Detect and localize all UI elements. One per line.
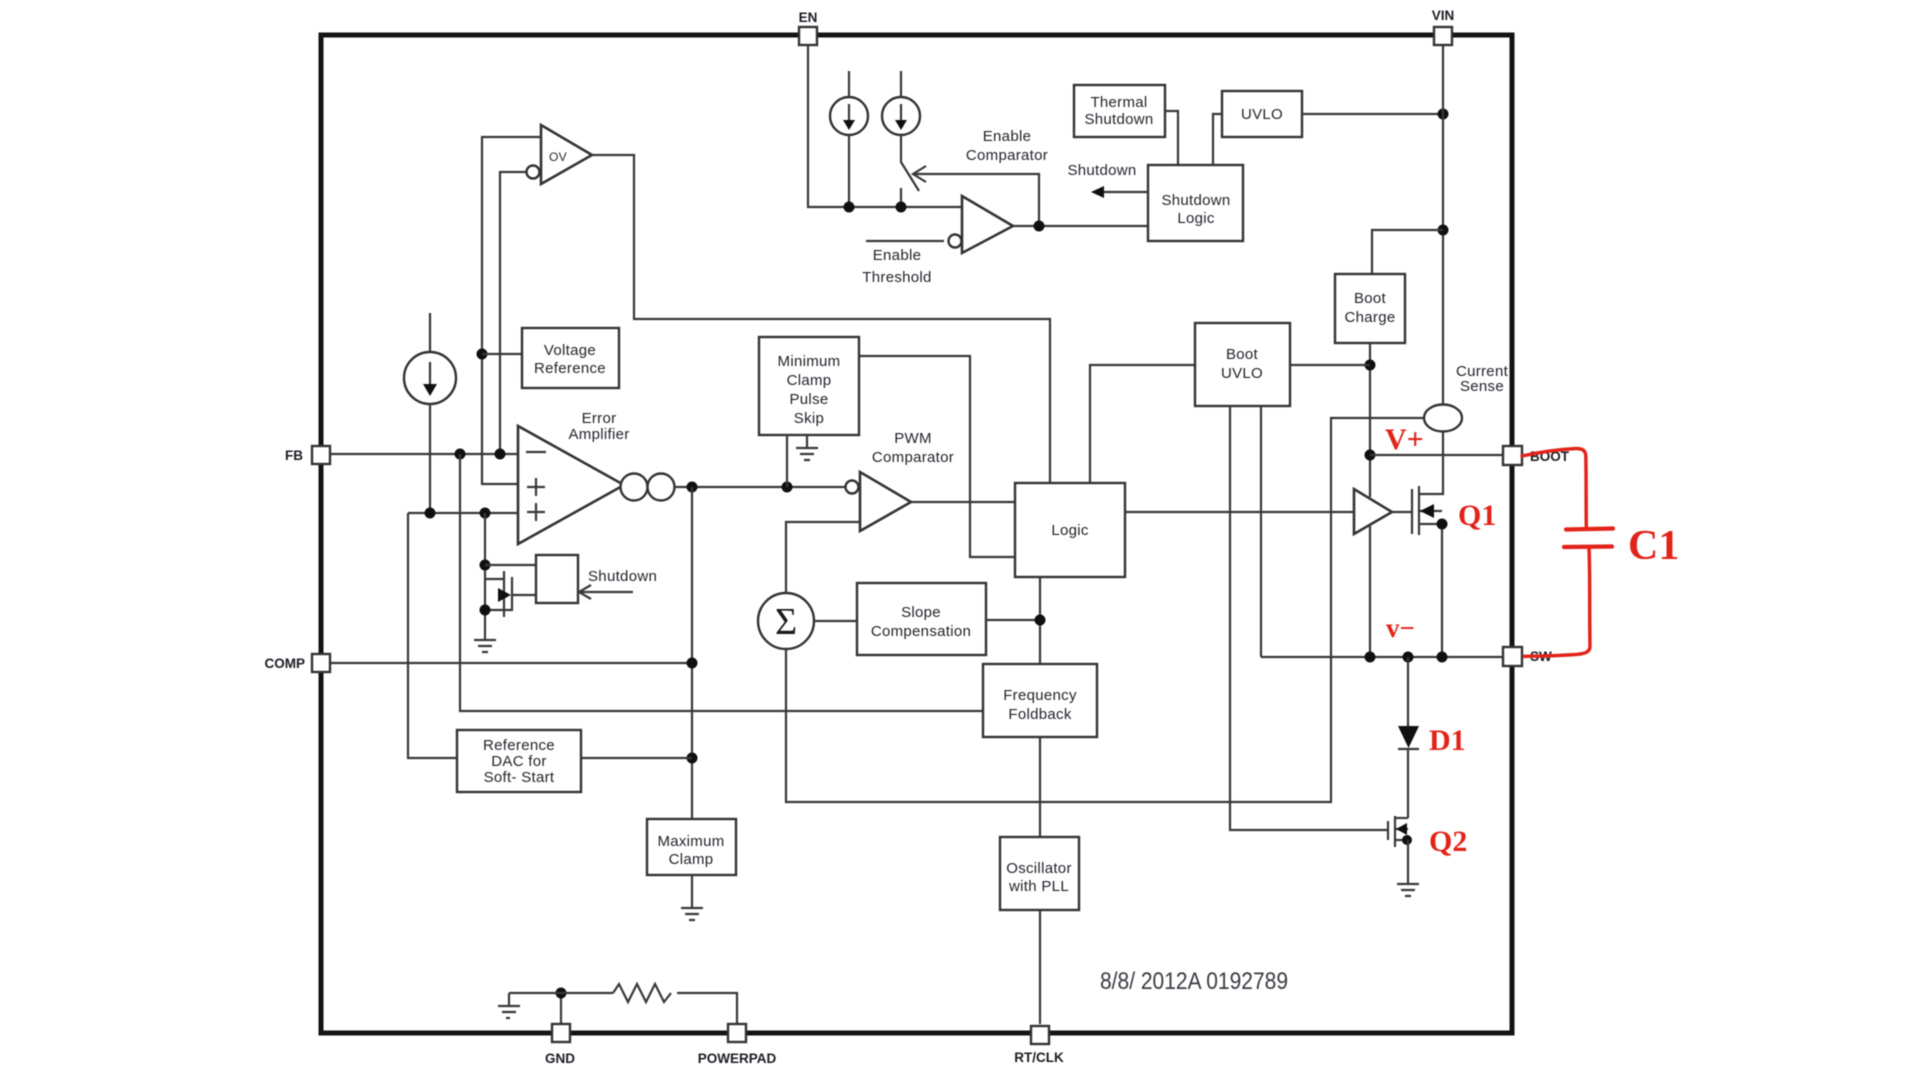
svg-text:v−: v−	[1386, 613, 1415, 643]
wire boot uvlo left pin to logic top	[1090, 365, 1195, 483]
op-amp U6 gate driver	[1354, 489, 1392, 534]
junction COMP	[687, 658, 698, 669]
current source I2 stub	[900, 71, 902, 97]
ground at GND net	[498, 993, 520, 1018]
transistor Q1 channel bar	[1418, 486, 1420, 535]
wire Q1 drain	[1419, 431, 1443, 494]
wire Q1 source	[1419, 524, 1442, 657]
ground at Q2	[1397, 884, 1419, 896]
svg-text:Shutdown: Shutdown	[588, 568, 657, 585]
transistor M1 channel bar	[511, 577, 513, 611]
wire D1 cathode to Q2 drain	[1407, 749, 1409, 818]
svg-text:Enable: Enable	[983, 128, 1032, 145]
wire fet drain to shutdown block	[485, 564, 536, 566]
junction SW driver rail	[1365, 652, 1376, 663]
wire thermal shutdown to logic	[1165, 111, 1178, 165]
svg-text:GND: GND	[545, 1051, 575, 1066]
wire BOOT rail	[1370, 454, 1503, 456]
svg-text:Skip: Skip	[794, 410, 824, 427]
wire red C1 to SW	[1524, 547, 1590, 656]
junction shutdown fet tap	[480, 508, 491, 519]
svg-text:Frequency: Frequency	[1003, 687, 1077, 704]
svg-text:D1: D1	[1429, 724, 1466, 757]
svg-text:Foldback: Foldback	[1008, 706, 1071, 723]
wire boot uvlo bottom pin to Q2 gate	[1230, 406, 1388, 830]
transistor Q1 gate bar	[1411, 489, 1413, 534]
wire logic bottom to frequency foldback	[1039, 577, 1041, 664]
ground at minimum clamp	[796, 448, 818, 460]
op-amp U2 enable comparator	[949, 235, 962, 248]
svg-text:Clamp: Clamp	[787, 372, 832, 389]
wire shutdown arrow	[1104, 191, 1148, 193]
wire min clamp right to logic	[859, 356, 1015, 557]
wire Q2 source to ground	[1407, 840, 1409, 884]
svg-text:Soft- Start: Soft- Start	[484, 769, 555, 786]
svg-text:Q2: Q2	[1429, 825, 1467, 858]
junction FB to OV	[495, 449, 506, 460]
svg-text:Shutdown: Shutdown	[1161, 192, 1230, 209]
wire GND pin up	[560, 993, 562, 1024]
terminal EN	[799, 27, 817, 45]
wire min clamp output down	[786, 435, 788, 487]
current source I1 stub	[848, 71, 850, 97]
wire Q2 source	[1395, 839, 1408, 841]
svg-text:FB: FB	[285, 448, 303, 463]
svg-text:Clamp: Clamp	[669, 851, 714, 868]
wire plus input to shutdown fet	[484, 513, 486, 639]
junction comparator output	[1034, 221, 1045, 232]
wire PWM output to logic	[911, 501, 1015, 503]
ground at shutdown fet	[474, 640, 496, 652]
wire sigma to slope compensation	[814, 620, 857, 622]
svg-text:Reference: Reference	[483, 737, 555, 754]
wire boot uvlo right pin	[1290, 364, 1370, 366]
wire boot charge bottom to BOOT node	[1369, 343, 1371, 497]
terminal BOOT	[1503, 446, 1522, 465]
svg-text:Pulse: Pulse	[789, 391, 828, 408]
wire FB line	[330, 453, 518, 455]
svg-text:Slope: Slope	[901, 604, 941, 621]
block Boot UVLO	[1195, 323, 1290, 406]
svg-text:Enable: Enable	[873, 247, 922, 264]
svg-text:Charge: Charge	[1345, 309, 1396, 326]
svg-text:Voltage: Voltage	[544, 342, 596, 359]
wire driver to Q1 gate	[1392, 511, 1411, 513]
op-amp U4 error amplifier	[518, 426, 624, 544]
wire fet gate L	[485, 578, 504, 580]
block Logic	[1015, 483, 1125, 577]
wire current sense below to Q1 drain already drawn	[1442, 44, 1444, 46]
junction minimum clamp tap	[782, 482, 793, 493]
wire logic output to driver	[1125, 511, 1354, 513]
svg-text:Amplifier: Amplifier	[568, 426, 629, 443]
wire DAC output	[581, 757, 692, 759]
transistor M1 body arrow	[498, 588, 511, 602]
svg-text:V+: V+	[1385, 423, 1424, 456]
wire gnd lateral	[509, 992, 613, 994]
wire EN drop and enable rail	[808, 45, 962, 207]
wire soft-start DAC feed	[408, 513, 457, 758]
wire shutdown control arrow	[580, 591, 633, 593]
block Boot Charge	[1335, 274, 1405, 343]
terminal VIN	[1434, 27, 1452, 45]
wire PWM lower input from sigma	[786, 522, 860, 593]
capacitor C1 bottom plate	[1564, 544, 1612, 549]
wire SW rail	[1261, 656, 1503, 658]
terminal COMP	[312, 654, 330, 672]
transistor Q2 gate bar	[1387, 821, 1389, 840]
transistor Q2 channel bar	[1394, 816, 1396, 847]
ground at maximum clamp	[681, 908, 703, 920]
terminal FB	[312, 446, 330, 464]
wire fet to shutdown block lower	[512, 594, 536, 596]
svg-text:Σ: Σ	[775, 601, 797, 643]
block Thermal Shutdown	[1074, 85, 1165, 137]
svg-text:Sense: Sense	[1460, 378, 1504, 395]
wire I3 to error amp plus input	[429, 404, 431, 513]
wire UVLO left to shutdown logic	[1213, 114, 1222, 165]
label error amp plus 1	[527, 478, 545, 496]
wire oscillator to RT/CLK	[1039, 910, 1041, 1024]
transistor M1 shutdown fet gate bar	[503, 571, 505, 617]
svg-text:Thermal: Thermal	[1090, 94, 1147, 111]
label error amp minus	[526, 451, 546, 453]
junction VIN boot charge	[1438, 225, 1449, 236]
transistor Q1 body arrow	[1419, 510, 1442, 512]
wire fet source stub	[485, 609, 512, 611]
block Maximum Clamp	[647, 819, 736, 875]
wire OV output to logic top	[592, 155, 1050, 483]
wire hysteresis feedback with arrow	[914, 174, 1039, 226]
svg-text:COMP: COMP	[265, 656, 306, 671]
svg-text:Logic: Logic	[1177, 210, 1215, 227]
wire foldback to oscillator	[1039, 737, 1041, 837]
wire error amp second plus input line	[408, 512, 518, 514]
terminal GND	[552, 1024, 570, 1042]
junction COMP tap	[687, 482, 698, 493]
op-amp U3 OV comparator	[541, 125, 592, 184]
wire enable threshold input	[866, 240, 944, 242]
wire I2 to switch	[901, 135, 919, 191]
svg-text:with PLL: with PLL	[1008, 878, 1069, 895]
svg-text:Maximum: Maximum	[657, 833, 724, 850]
svg-text:EN: EN	[799, 10, 818, 25]
svg-text:Q1: Q1	[1458, 499, 1496, 532]
block Reference DAC for Soft-Start	[457, 730, 581, 792]
block UVLO	[1222, 91, 1302, 137]
svg-text:Boot: Boot	[1354, 290, 1387, 307]
svg-text:Minimum: Minimum	[778, 353, 841, 370]
svg-text:OV: OV	[549, 150, 567, 164]
block Oscillator with PLL	[1000, 837, 1079, 910]
junction BOOT node	[1365, 450, 1376, 461]
svg-text:VIN: VIN	[1432, 8, 1455, 23]
block Shutdown Logic	[1148, 165, 1243, 241]
wire OV direct input / reference rail	[482, 137, 541, 484]
current source I2	[882, 97, 920, 135]
error amp output clamp circle 1	[621, 474, 648, 501]
block shutdown switch	[536, 555, 578, 603]
terminal POWERPAD	[728, 1024, 746, 1042]
wire driver lower rail to SW	[1369, 526, 1371, 657]
wire error amp output to PWM comparator	[674, 486, 845, 488]
wire I1 to enable rail	[848, 135, 850, 207]
wire VIN rail	[1442, 45, 1444, 405]
current source I3	[404, 352, 456, 404]
wire min clamp ground stub	[806, 435, 808, 448]
junction slope comp tap	[1035, 615, 1046, 626]
transistor Q2 body arrow	[1395, 828, 1408, 830]
svg-text:Comparator: Comparator	[966, 147, 1048, 164]
svg-text:UVLO: UVLO	[1241, 106, 1283, 123]
wire Q2 drain stub	[1395, 817, 1408, 819]
svg-text:Threshold: Threshold	[862, 269, 931, 286]
terminal SW	[1503, 647, 1522, 666]
svg-text:RT/CLK: RT/CLK	[1014, 1050, 1064, 1065]
junction FB to soft-start rail	[455, 449, 466, 460]
svg-text:DAC for: DAC for	[491, 753, 546, 770]
current sense sensor	[1424, 405, 1462, 432]
svg-text:Shutdown: Shutdown	[1067, 162, 1136, 179]
svg-text:Shutdown: Shutdown	[1084, 111, 1153, 128]
current source I3 stub	[429, 313, 431, 352]
junction fet drain	[480, 560, 491, 571]
svg-text:Boot: Boot	[1226, 346, 1259, 363]
block Slope Compensation	[857, 583, 986, 655]
diode D1	[1398, 726, 1419, 748]
wire boot charge top to VIN	[1372, 230, 1443, 274]
junction boot uvlo right	[1365, 360, 1376, 371]
wire OV bubble input from FB	[500, 172, 526, 454]
wire voltage reference left pin	[482, 353, 522, 355]
terminal RT/CLK	[1031, 1026, 1049, 1044]
junction I3	[425, 508, 436, 519]
junction voltage reference tap	[477, 349, 488, 360]
svg-text:Comparator: Comparator	[872, 449, 954, 466]
block Minimum Clamp Pulse Skip	[759, 337, 859, 435]
resistor R1 powerpad	[613, 984, 671, 1002]
wire comparator output	[1013, 225, 1148, 227]
error amp output clamp circle 2	[648, 474, 675, 501]
summer S1 sigma	[758, 593, 814, 649]
junction fet source	[480, 605, 491, 616]
junction Q1 source	[1437, 519, 1448, 530]
svg-text:Reference: Reference	[534, 360, 606, 377]
svg-text:8/8/ 2012A 0192789: 8/8/ 2012A 0192789	[1100, 968, 1288, 995]
wire FB down to frequency foldback	[460, 454, 983, 711]
junction on enable rail	[844, 202, 855, 213]
junction on enable rail	[896, 202, 907, 213]
svg-text:Compensation: Compensation	[871, 623, 971, 640]
junction VIN-UVLO	[1438, 109, 1449, 120]
label error amp plus 2	[527, 503, 545, 521]
wire slope comp to logic rail	[986, 619, 1040, 621]
wire red BOOT to C1	[1522, 449, 1586, 526]
junction Q2 source	[1402, 835, 1412, 845]
block Voltage Reference	[522, 328, 619, 388]
svg-text:C1: C1	[1628, 523, 1679, 569]
junction SW diode	[1403, 652, 1414, 663]
op-amp U5 PWM comparator	[846, 481, 859, 494]
svg-text:Oscillator: Oscillator	[1006, 860, 1072, 877]
wire COMP vertical	[691, 487, 693, 819]
wire COMP line	[330, 662, 692, 664]
svg-text:Logic: Logic	[1051, 522, 1089, 539]
block Frequency Foldback	[983, 664, 1097, 737]
wire sigma bottom to current sense rail	[786, 418, 1424, 802]
svg-text:PWM: PWM	[894, 430, 932, 447]
wire maximum clamp to ground	[691, 875, 693, 907]
junction DAC output	[687, 753, 698, 764]
junction SW Q1 source	[1437, 652, 1448, 663]
capacitor C1 top plate	[1566, 529, 1613, 530]
junction gnd	[556, 988, 567, 999]
wire switch stub	[900, 188, 902, 207]
wire SW to D1 anode	[1407, 657, 1409, 726]
wire boot uvlo bottom pin to SW rail	[1260, 406, 1262, 657]
current source I1	[830, 97, 868, 135]
svg-text:Error: Error	[582, 410, 617, 427]
svg-text:UVLO: UVLO	[1221, 365, 1263, 382]
wire UVLO right to VIN rail	[1302, 113, 1443, 115]
IC boundary box	[321, 35, 1512, 1033]
wire resistor to POWERPAD	[677, 993, 737, 1024]
svg-text:POWERPAD: POWERPAD	[698, 1051, 777, 1066]
